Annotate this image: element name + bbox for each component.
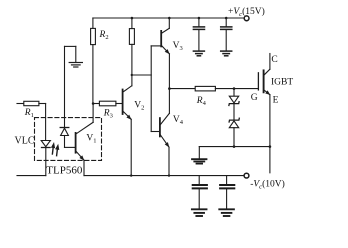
transistor V4 bbox=[160, 113, 170, 175]
node +Vc terminal bbox=[244, 16, 249, 21]
svg-text:VLC: VLC bbox=[15, 135, 35, 146]
ground (under C-bot-2) bbox=[219, 209, 234, 216]
svg-text:V1: V1 bbox=[86, 134, 96, 145]
svg-text:V2: V2 bbox=[134, 100, 144, 111]
svg-text:-Vc(10V): -Vc(10V) bbox=[250, 178, 285, 190]
light arrows bbox=[51, 142, 59, 156]
node gate-wire / zener junction bbox=[233, 87, 236, 90]
wire base link V3/V4 bbox=[151, 46, 160, 132]
wire LED return (input bottom) bbox=[17, 175, 46, 177]
resistor R1 bbox=[17, 101, 46, 105]
ground (under C-top-2) bbox=[221, 51, 232, 56]
ground (under C-bot-1) bbox=[192, 209, 207, 216]
ground (under C-top-1) bbox=[193, 51, 204, 56]
node -Vc terminal bbox=[244, 173, 249, 178]
transistor V1 (photo-transistor) bbox=[76, 104, 94, 176]
svg-text:R1: R1 bbox=[24, 108, 34, 119]
capacitor C-top-1 bbox=[193, 18, 204, 50]
wire R1 to LED anode bbox=[45, 104, 47, 141]
svg-text:C: C bbox=[271, 55, 277, 65]
optocoupler dashed box TLP560 bbox=[35, 118, 102, 161]
LED (emitter diode inside TLP560) bbox=[41, 141, 50, 176]
svg-text:R3: R3 bbox=[103, 108, 113, 119]
svg-text:+Vc(15V): +Vc(15V) bbox=[228, 6, 265, 18]
photodiode (inside TLP560) bbox=[60, 46, 75, 147]
transistor V3 bbox=[161, 28, 170, 113]
resistor (unlabeled collector resistor of V2) bbox=[129, 18, 134, 86]
svg-text:V4: V4 bbox=[173, 115, 184, 126]
ground (middle rail) bbox=[192, 147, 207, 164]
svg-text:E: E bbox=[273, 96, 279, 106]
wire middle emitter rail bbox=[199, 146, 270, 148]
transistor V2 bbox=[123, 86, 132, 176]
wire bottom rail (secondary) bbox=[84, 175, 244, 177]
svg-text:R4: R4 bbox=[196, 96, 207, 107]
resistor R2 bbox=[91, 18, 96, 104]
capacitor C-bot-1 bbox=[193, 176, 207, 209]
wire +Vc top rail bbox=[93, 17, 244, 19]
resistor R4 bbox=[169, 86, 258, 91]
ground (photodiode return) bbox=[65, 46, 83, 67]
node output junction to R4 bbox=[168, 87, 171, 90]
capacitor C-top-2 bbox=[221, 18, 232, 50]
svg-text:V3: V3 bbox=[173, 41, 183, 52]
wire V2 collector to base link bbox=[132, 74, 151, 76]
svg-text:IGBT: IGBT bbox=[271, 78, 293, 88]
svg-text:G: G bbox=[251, 93, 258, 103]
resistor R3 bbox=[93, 101, 122, 106]
node junction R2/R3/V1 bbox=[92, 102, 95, 105]
IGBT U1 bbox=[258, 54, 270, 173]
svg-text:TLP560: TLP560 bbox=[46, 165, 83, 177]
zener diode DZ-top bbox=[229, 89, 239, 120]
junction dots top rail bbox=[131, 17, 228, 20]
svg-text:R2: R2 bbox=[99, 30, 109, 41]
zener diode DZ-bottom bbox=[229, 118, 239, 146]
capacitor C-bot-2 bbox=[220, 176, 234, 209]
wire V3 collector drop bbox=[168, 18, 170, 28]
